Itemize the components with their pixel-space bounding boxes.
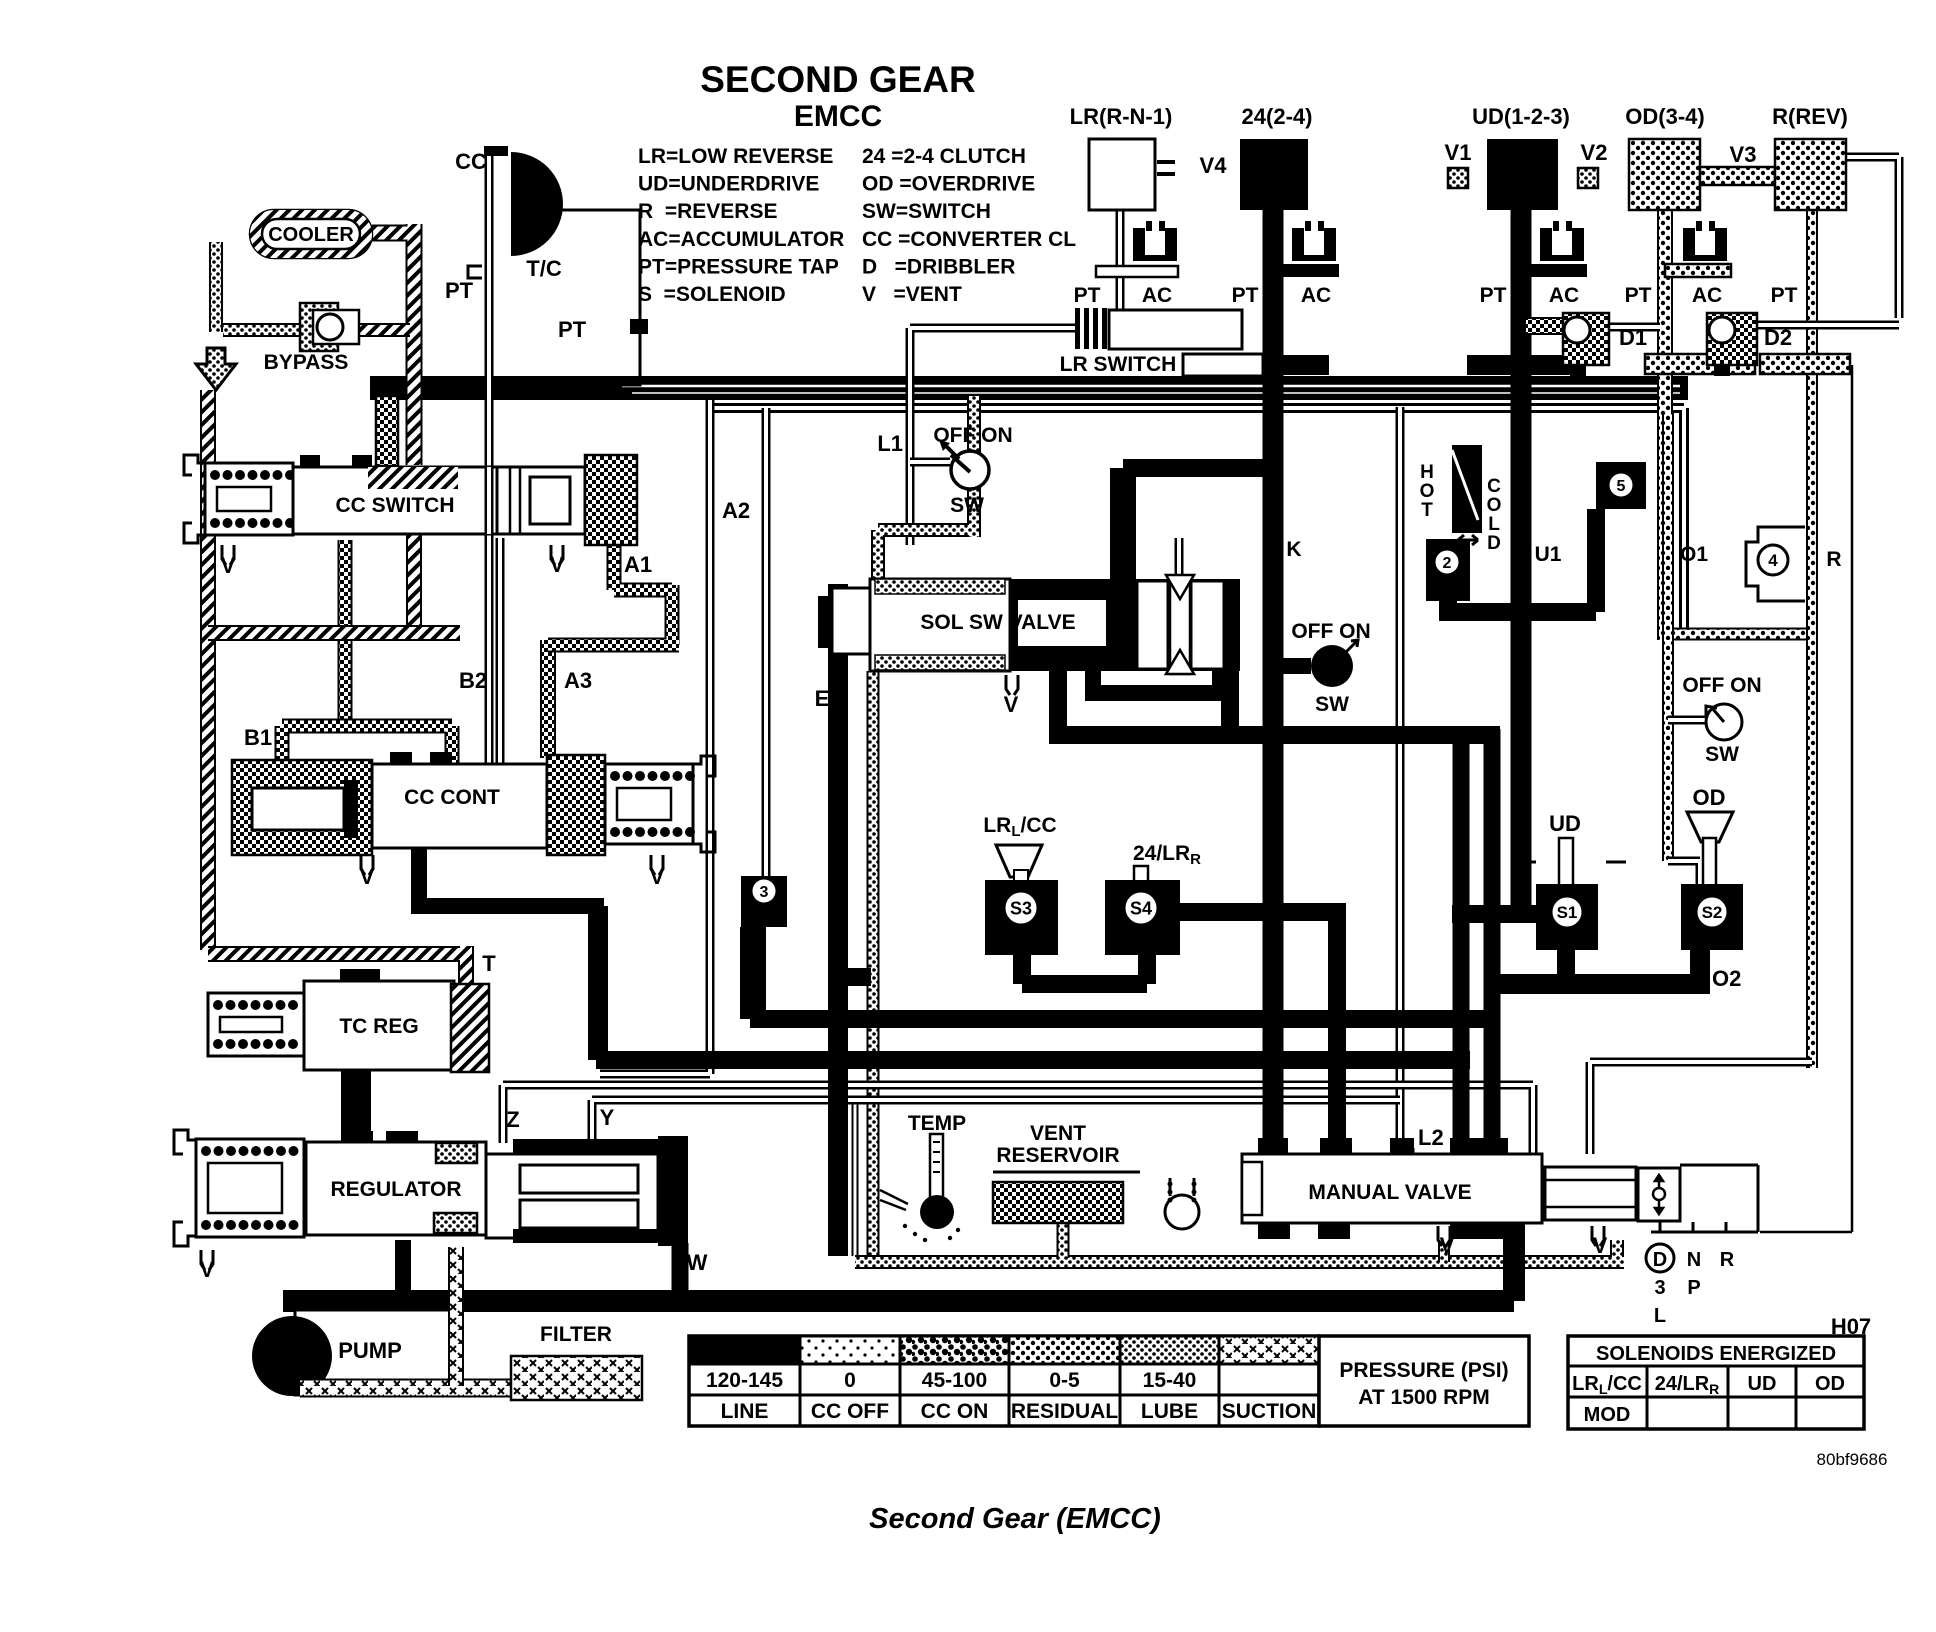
valve REGULATOR pads	[434, 1143, 477, 1233]
label Y	[600, 1105, 615, 1130]
svg-text:V: V	[1004, 692, 1019, 717]
svg-text:PT: PT	[1074, 284, 1101, 307]
svg-text:LR=LOW REVERSE: LR=LOW REVERSE	[638, 145, 833, 168]
vent under CC CONT left	[360, 855, 375, 889]
vent manual valve right	[1592, 1226, 1608, 1258]
clutch UD box	[1487, 139, 1558, 210]
svg-text:O2: O2	[1712, 966, 1741, 991]
svg-text:D2: D2	[1764, 325, 1792, 350]
svg-text:V: V	[1440, 1233, 1455, 1258]
enclosure frame	[852, 1100, 859, 1256]
pump circle	[252, 1316, 332, 1396]
svg-text:A2: A2	[722, 498, 750, 523]
svg-text:SW: SW	[1705, 743, 1739, 766]
valve REGULATOR spring	[196, 1139, 304, 1237]
valve REGULATOR body	[306, 1131, 486, 1235]
svg-text:LRL/CC: LRL/CC	[1572, 1373, 1642, 1397]
label L2	[1418, 1125, 1444, 1150]
wire A1 pipe	[548, 540, 679, 645]
svg-text:V: V	[550, 552, 565, 577]
wire R drop to manual valve	[1590, 1062, 1812, 1154]
svg-text:EMCC: EMCC	[794, 100, 882, 133]
svg-text:R =REVERSE: R =REVERSE	[638, 200, 777, 223]
solenoids energized table	[1568, 1336, 1864, 1429]
svg-text:MOD: MOD	[1584, 1404, 1631, 1426]
vent under CC CONT right	[650, 855, 665, 889]
svg-text:B1: B1	[244, 725, 272, 750]
label CC CONT	[404, 786, 500, 809]
wire vent stipple drop	[867, 671, 880, 1258]
svg-text:D1: D1	[1619, 325, 1647, 350]
svg-text:V: V	[1593, 1233, 1608, 1258]
valve SOL SW stipple section	[870, 579, 1010, 671]
label E	[815, 686, 830, 711]
wire regulator drop 1	[395, 1240, 411, 1301]
wire S4 outlet	[1180, 903, 1337, 1154]
caption Second Gear (EMCC)	[869, 1503, 1161, 1535]
svg-text:OFF ON: OFF ON	[1682, 674, 1761, 697]
thermal arrow	[1458, 535, 1478, 545]
svg-text:FILTER: FILTER	[540, 1323, 612, 1346]
wire suction channel	[300, 1379, 511, 1398]
svg-text:T: T	[482, 951, 496, 976]
accumulator AC 24	[1292, 221, 1336, 261]
wire reservoir drain	[1057, 1223, 1070, 1258]
svg-text:COOLER: COOLER	[268, 224, 354, 246]
svg-text:OD: OD	[1693, 785, 1726, 810]
dribbler D1	[1525, 313, 1647, 376]
wire UD feed line	[1511, 210, 1532, 918]
svg-text:SW=SWITCH: SW=SWITCH	[862, 200, 991, 223]
svg-text:V2: V2	[1581, 140, 1608, 165]
svg-text:L1: L1	[877, 431, 903, 456]
wire hatch to TC REG	[208, 946, 466, 984]
label COLD	[1487, 476, 1502, 554]
valve CC CONT spring	[605, 764, 695, 844]
wire B2 pipe	[496, 538, 505, 766]
clutch R(REV) label	[1772, 104, 1848, 129]
valve CC CONT flange	[693, 756, 715, 852]
label W	[687, 1250, 708, 1275]
svg-text:UD(1-2-3): UD(1-2-3)	[1472, 104, 1570, 129]
accumulator shelf UD	[1521, 264, 1587, 277]
svg-text:PT: PT	[1232, 284, 1259, 307]
shift gate	[1651, 1165, 1758, 1232]
wire O1 pipe	[1668, 412, 1706, 884]
label MANUAL VALVE	[1308, 1181, 1471, 1204]
valve CC SWITCH flange	[184, 455, 205, 543]
wire hatch mid horizontal	[208, 625, 460, 641]
svg-text:RESIDUAL: RESIDUAL	[1011, 1400, 1119, 1423]
tee bar UD	[1467, 355, 1577, 375]
svg-text:V1: V1	[1445, 140, 1472, 165]
vent manual valve left	[1438, 1226, 1455, 1258]
svg-text:L2: L2	[1418, 1125, 1444, 1150]
wire H2	[750, 1010, 1500, 1028]
svg-text:B2: B2	[459, 668, 487, 693]
svg-text:V: V	[360, 864, 375, 889]
wire D1 shelf pipe	[1609, 323, 1660, 332]
filter FILTER	[511, 1356, 642, 1400]
clutch LR box	[1089, 139, 1155, 210]
wire K branch	[1123, 468, 1273, 579]
label VENT RESERVOIR	[996, 1122, 1119, 1167]
label REGULATOR	[330, 1178, 461, 1201]
cooler body	[250, 210, 372, 258]
label A3	[564, 668, 592, 693]
svg-text:R: R	[1826, 548, 1841, 571]
svg-text:PT: PT	[1625, 284, 1652, 307]
svg-text:5: 5	[1617, 478, 1626, 495]
switch SW mid black	[1291, 620, 1370, 716]
svg-text:PUMP: PUMP	[338, 1338, 402, 1363]
svg-text:AC: AC	[1142, 284, 1172, 307]
label SOL SW VALVE	[920, 611, 1075, 634]
wire O2 line	[1492, 974, 1700, 994]
label AC OD	[1692, 284, 1722, 307]
label OD above S2	[1693, 785, 1726, 810]
wire B checker vertical	[338, 540, 353, 726]
svg-text:O: O	[1420, 481, 1435, 502]
label UD above S1	[1549, 811, 1581, 836]
solenoid S1 stem	[1516, 838, 1626, 886]
valve 3 box	[741, 876, 787, 927]
svg-text:LR SWITCH: LR SWITCH	[1060, 353, 1177, 376]
nozzle V2	[1578, 140, 1607, 188]
svg-text:R(REV): R(REV)	[1772, 104, 1848, 129]
wire LR clutch pipe down	[1116, 210, 1125, 310]
valve TC REG spring	[208, 993, 304, 1056]
subtitle EMCC	[794, 100, 882, 133]
tee bar 24	[1219, 355, 1329, 375]
wire Y line	[592, 1100, 1400, 1143]
label CC SWITCH	[336, 494, 455, 517]
wire sol valve drop pair	[828, 584, 871, 1256]
label R right	[1826, 548, 1841, 571]
svg-text:UD: UD	[1549, 811, 1581, 836]
accumulator AC shelf LR	[1096, 266, 1178, 277]
check ball symbol	[1165, 1178, 1199, 1229]
label LRL/CC	[983, 814, 1056, 840]
wire left riser to H3	[588, 906, 608, 1060]
vent under sol valve	[1004, 675, 1019, 717]
svg-text:A1: A1	[624, 552, 652, 577]
thermal element	[1452, 445, 1482, 533]
wire D2 drop pipe	[1760, 365, 1852, 1232]
wire bypass to supply hatch	[340, 323, 410, 337]
vent under CC SWITCH right	[550, 545, 565, 577]
wire sol valve top stipple	[878, 396, 974, 579]
svg-text:AC: AC	[1692, 284, 1722, 307]
svg-text:PT: PT	[1771, 284, 1798, 307]
valve CC SWITCH end block	[585, 455, 637, 545]
wire suction riser	[448, 1247, 464, 1386]
label HOT	[1420, 462, 1435, 521]
label BYPASS	[264, 351, 349, 374]
svg-text:D: D	[1653, 1249, 1667, 1271]
svg-text:AC=ACCUMULATOR: AC=ACCUMULATOR	[638, 228, 844, 251]
label O1	[1680, 543, 1708, 566]
wire residual band B	[707, 408, 1684, 634]
wire spool top pipe	[1175, 538, 1184, 579]
svg-text:OD =OVERDRIVE: OD =OVERDRIVE	[862, 173, 1035, 196]
valve REGULATOR end	[658, 1136, 688, 1246]
svg-text:LRL/CC: LRL/CC	[983, 814, 1056, 840]
svg-text:V =VENT: V =VENT	[862, 283, 962, 306]
wire bypass return dotted	[223, 323, 302, 337]
pressure tap PT upper	[445, 266, 482, 303]
wire cooler return dotted	[209, 242, 223, 332]
legend pressure table	[689, 1336, 1319, 1426]
vent reservoir box	[993, 1172, 1140, 1223]
svg-text:LR(R-N-1): LR(R-N-1)	[1070, 104, 1173, 129]
accumulator shelf OD	[1665, 264, 1731, 277]
label O2	[1712, 966, 1741, 991]
wire pump outlet	[283, 1301, 301, 1312]
solenoid S3 funnel	[996, 845, 1042, 882]
solenoid S1	[1536, 884, 1598, 950]
svg-text:Y: Y	[600, 1105, 615, 1130]
clutch OD(3-4) label	[1625, 104, 1704, 129]
svg-text:CC: CC	[455, 149, 487, 174]
svg-text:REGULATOR: REGULATOR	[330, 1178, 461, 1201]
svg-text:120-145: 120-145	[706, 1369, 783, 1392]
wire sol valve loop	[1049, 669, 1500, 735]
svg-text:SW: SW	[1315, 693, 1349, 716]
svg-text:3: 3	[760, 884, 769, 901]
wire left hatch vertical	[200, 390, 216, 950]
solenoid S4	[1105, 880, 1180, 955]
svg-text:V3: V3	[1730, 142, 1757, 167]
wire 2-5 link	[1439, 509, 1596, 612]
wire B1 checker pipe	[282, 726, 452, 772]
svg-text:LUBE: LUBE	[1141, 1400, 1198, 1423]
wire 3-box drop	[740, 927, 766, 1019]
wire L2 pipe	[1400, 407, 1410, 1154]
wire 24 feed line	[1263, 210, 1284, 1154]
label H07	[1831, 1314, 1871, 1339]
clutch UD(1-2-3) label	[1472, 104, 1570, 129]
valve SOL SW left flange	[818, 588, 870, 654]
svg-text:TEMP: TEMP	[908, 1112, 966, 1135]
solenoid S2 funnel	[1687, 812, 1733, 886]
valve TC REG body	[304, 969, 454, 1070]
solenoid S2	[1681, 884, 1743, 950]
svg-text:S2: S2	[1702, 903, 1723, 922]
wire Y feed pipe	[600, 400, 710, 1074]
svg-text:O1: O1	[1680, 543, 1708, 566]
svg-text:SOL SW VALVE: SOL SW VALVE	[920, 611, 1075, 634]
clutch 24 box	[1240, 139, 1308, 210]
valve LR SWITCH body	[1075, 308, 1242, 349]
wire R box to D2 pipe	[1757, 157, 1899, 325]
svg-text:A3: A3	[564, 668, 592, 693]
wire SW mid link	[1273, 658, 1311, 674]
solenoid S3	[985, 880, 1058, 955]
valve MANUAL VALVE body	[1242, 1138, 1542, 1239]
valve CC SWITCH spring	[205, 463, 295, 535]
clutch OD box	[1629, 139, 1700, 210]
label PT 24	[1232, 284, 1259, 307]
label PT UD	[1480, 284, 1507, 307]
svg-text:0-5: 0-5	[1049, 1369, 1080, 1392]
torque converter outline	[545, 210, 640, 385]
svg-text:CC =CONVERTER CL: CC =CONVERTER CL	[862, 228, 1076, 251]
pump housing	[295, 1310, 451, 1395]
svg-text:S =SOLENOID: S =SOLENOID	[638, 283, 786, 306]
wire R feed pipe	[1806, 210, 1818, 1068]
valve 5 box	[1596, 462, 1646, 509]
wire manual feed vertical B	[1484, 729, 1501, 1154]
valve SOL SW under band	[1085, 671, 1230, 701]
thermometer TEMP	[880, 1112, 966, 1242]
svg-text:4: 4	[1768, 551, 1778, 570]
shift positions	[1646, 1244, 1735, 1327]
svg-text:CC OFF: CC OFF	[811, 1400, 889, 1423]
svg-text:15-40: 15-40	[1143, 1369, 1197, 1392]
svg-text:N: N	[1687, 1249, 1701, 1271]
title SECOND GEAR	[700, 59, 975, 100]
wire S2 drop	[1690, 942, 1710, 994]
wire cooler supply hatch	[372, 224, 414, 465]
valve SOL SW black section	[1010, 579, 1240, 671]
valve REGULATOR spools	[486, 1139, 663, 1243]
label Z	[506, 1107, 519, 1132]
wire A3 pipe	[540, 640, 556, 758]
accumulator AC UD	[1540, 221, 1584, 261]
tee bar R	[1760, 354, 1850, 374]
valve CC CONT accumulator	[232, 760, 372, 855]
label LR SWITCH	[1060, 353, 1263, 376]
label AC 24	[1301, 284, 1331, 307]
svg-text:T/C: T/C	[526, 256, 562, 281]
svg-text:VENT: VENT	[1030, 1122, 1086, 1145]
label T/C	[526, 256, 562, 281]
label 24/LRR	[1133, 842, 1201, 868]
svg-text:80bf9686: 80bf9686	[1817, 1450, 1888, 1469]
label FILTER	[540, 1323, 612, 1346]
svg-text:UD=UNDERDRIVE: UD=UNDERDRIVE	[638, 173, 819, 196]
torque converter T/C disc	[484, 146, 563, 256]
vent V4 stub	[1157, 153, 1227, 178]
wire H3	[596, 1051, 1470, 1069]
wire LR switch to L1 pipe	[910, 328, 1075, 545]
svg-text:S1: S1	[1557, 903, 1578, 922]
svg-text:PT: PT	[1480, 284, 1507, 307]
svg-text:W: W	[687, 1250, 708, 1275]
wire regulator drop 2	[672, 1243, 689, 1301]
label PT LR	[1074, 284, 1101, 307]
wire CC pipe through switch	[489, 467, 500, 534]
wire main line	[283, 1290, 1514, 1312]
valve CC SWITCH body	[293, 455, 497, 534]
svg-text:AC: AC	[1549, 284, 1579, 307]
switch SW right	[1682, 674, 1761, 766]
label AC UD	[1549, 284, 1579, 307]
svg-text:P: P	[1687, 1277, 1700, 1299]
dribbler D2	[1707, 313, 1792, 376]
wire hatch through CC switch	[406, 534, 422, 633]
svg-text:MANUAL VALVE: MANUAL VALVE	[1308, 1181, 1471, 1204]
label A2	[722, 498, 750, 523]
wire OD to R link pipe	[1665, 628, 1812, 641]
svg-text:24(2-4): 24(2-4)	[1242, 104, 1313, 129]
svg-text:SUCTION: SUCTION	[1222, 1400, 1317, 1423]
clutch R box	[1775, 139, 1846, 210]
svg-text:24 =2-4 CLUTCH: 24 =2-4 CLUTCH	[862, 145, 1026, 168]
pressure tap PT lower	[558, 317, 648, 342]
vent under REGULATOR	[200, 1250, 215, 1282]
svg-text:3: 3	[1654, 1277, 1665, 1299]
svg-text:2: 2	[1443, 555, 1452, 572]
valve CC SWITCH right spools	[497, 467, 585, 534]
valve manual right extension	[1545, 1167, 1636, 1220]
nozzle V1	[1445, 140, 1472, 188]
svg-text:D: D	[1487, 533, 1501, 554]
svg-text:T: T	[1421, 500, 1433, 521]
svg-text:PT: PT	[558, 317, 587, 342]
wire manual valve riser	[1503, 1223, 1525, 1301]
solenoid S4 stem	[1134, 866, 1148, 882]
svg-text:PRESSURE (PSI): PRESSURE (PSI)	[1339, 1359, 1508, 1382]
accumulator shelf 24	[1273, 264, 1339, 277]
label PUMP	[338, 1338, 402, 1363]
svg-text:SOLENOIDS ENERGIZED: SOLENOIDS ENERGIZED	[1596, 1343, 1836, 1365]
svg-text:K: K	[1286, 538, 1301, 561]
suction arrow down	[196, 348, 236, 390]
switch SW upper	[933, 424, 1012, 517]
label T	[482, 951, 496, 976]
valve CC CONT body	[372, 752, 547, 848]
label PT OD	[1625, 284, 1652, 307]
wire lube channel	[855, 1240, 1624, 1262]
valve TC REG hatch block	[451, 984, 489, 1072]
svg-text:S4: S4	[1130, 898, 1152, 918]
wire tc reg to regulator	[341, 1070, 371, 1143]
svg-text:S3: S3	[1010, 898, 1032, 918]
legend text block	[638, 145, 1076, 306]
label AC LR	[1142, 284, 1172, 307]
svg-text:PT=PRESSURE TAP: PT=PRESSURE TAP	[638, 255, 839, 278]
wire lube V riser	[1438, 1240, 1450, 1262]
lever box	[1638, 1168, 1680, 1221]
svg-text:BYPASS: BYPASS	[264, 351, 349, 374]
svg-text:SW: SW	[950, 494, 984, 517]
svg-text:L: L	[1654, 1305, 1666, 1327]
svg-text:CC SWITCH: CC SWITCH	[336, 494, 455, 517]
svg-text:E: E	[815, 686, 830, 711]
label A1	[624, 552, 652, 577]
svg-text:OD: OD	[1815, 1373, 1845, 1395]
valve REGULATOR flange	[174, 1130, 196, 1246]
label B2	[459, 668, 487, 693]
wire OD feed pipe	[1657, 210, 1673, 640]
accumulator AC LR	[1133, 221, 1177, 261]
wire CC CONT outlet	[411, 848, 604, 914]
svg-text:U1: U1	[1535, 543, 1562, 566]
svg-text:V: V	[221, 553, 236, 578]
wire S3 outlet	[1022, 955, 1147, 984]
valve CC CONT right block	[547, 755, 605, 855]
svg-text:Z: Z	[506, 1107, 519, 1132]
svg-text:TC REG: TC REG	[339, 1015, 418, 1038]
svg-text:UD: UD	[1748, 1373, 1777, 1395]
svg-text:CC CONT: CC CONT	[404, 786, 500, 809]
svg-text:H: H	[1420, 462, 1434, 483]
svg-text:CC ON: CC ON	[921, 1400, 989, 1423]
svg-text:V4: V4	[1200, 153, 1228, 178]
label B1	[244, 725, 272, 750]
